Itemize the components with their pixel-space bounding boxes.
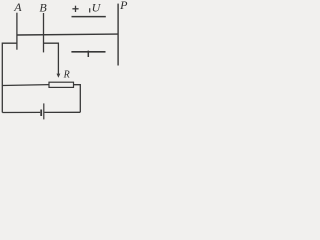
bottom wire right of battery <box>44 111 80 113</box>
svg-text:R: R <box>63 70 70 81</box>
stub on bottom deflection plate <box>87 51 89 57</box>
plate B <box>43 13 45 52</box>
rheostat slider arrow head <box>57 74 61 78</box>
bottom deflection plate <box>71 51 105 53</box>
svg-text:P: P <box>119 0 128 12</box>
resistor R box <box>49 82 74 87</box>
plus sign vertical stroke <box>75 6 77 12</box>
background <box>0 0 132 121</box>
plate A <box>16 13 18 50</box>
svg-text:B: B <box>39 1 47 15</box>
feed wire from left side to resistor <box>2 84 49 87</box>
svg-text:U: U <box>92 1 102 15</box>
top deflection plate under +U label <box>72 16 106 18</box>
small tick before U <box>89 8 91 12</box>
wire from resistor to right side down to battery <box>74 85 81 113</box>
plate P <box>117 4 119 66</box>
beam axis wire from A to plate P <box>17 33 118 36</box>
wire from plate B to rheostat slider <box>44 43 59 74</box>
plus sign horizontal stroke <box>72 8 78 10</box>
svg-text:A: A <box>13 0 22 14</box>
wire from plate A down the left side <box>2 43 17 112</box>
battery short plate <box>40 110 42 117</box>
battery long plate <box>43 103 45 119</box>
bottom wire left of battery <box>2 111 40 113</box>
